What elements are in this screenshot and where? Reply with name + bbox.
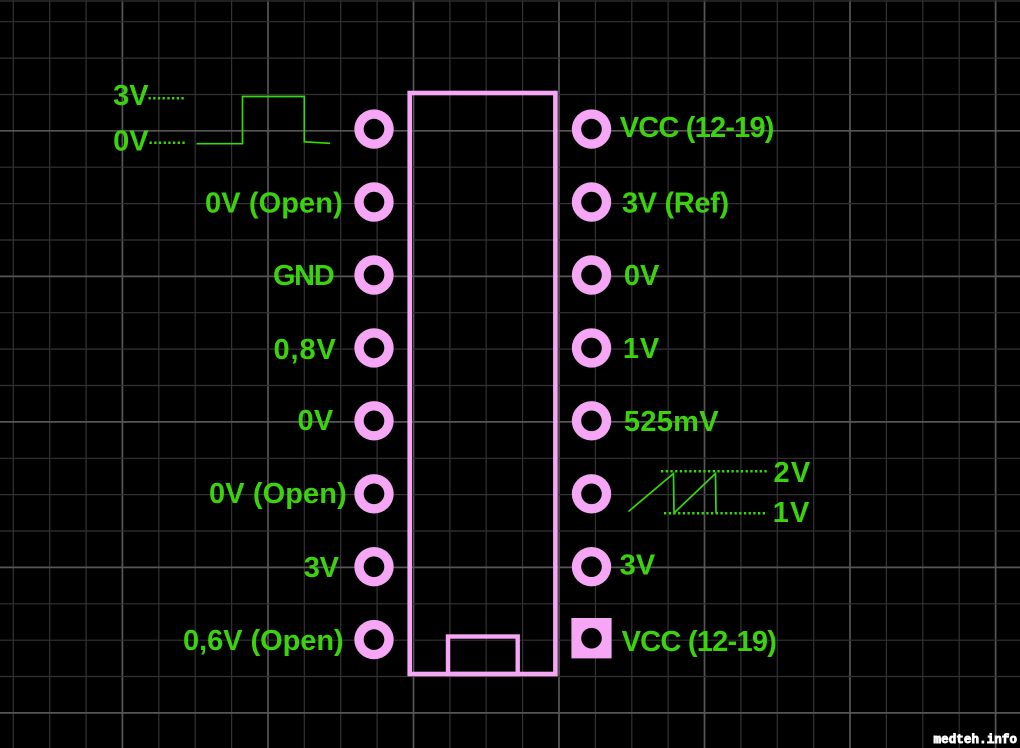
svg-text:3V: 3V xyxy=(113,80,149,112)
pad pin 14 (right column, round) xyxy=(572,255,611,294)
svg-text:3V (Ref): 3V (Ref) xyxy=(622,188,729,220)
pad pin 11 (right column, round) xyxy=(572,474,611,513)
svg-text:1V: 1V xyxy=(623,333,660,365)
dotted reference line 0V (pin 1) xyxy=(150,141,187,144)
IC orientation notch (bottom) xyxy=(448,637,518,675)
dotted reference line 3V (pin 1) xyxy=(149,97,187,100)
dotted reference line 1V (pin 11) xyxy=(664,512,767,515)
svg-text:525mV: 525mV xyxy=(624,406,719,438)
svg-text:GND: GND xyxy=(273,260,334,292)
pad pin 16 (right column, round) xyxy=(572,109,611,148)
pad pin 12 (right column, round) xyxy=(572,401,611,440)
pad pin 2 (left column) xyxy=(354,182,393,221)
pad pin 8 (left column) xyxy=(354,620,393,659)
svg-text:1V: 1V xyxy=(773,497,811,529)
svg-text:0V: 0V xyxy=(624,260,660,292)
svg-text:0,6V (Open): 0,6V (Open) xyxy=(183,625,344,657)
svg-text:VCC (12-19): VCC (12-19) xyxy=(620,112,774,144)
pad pin 3 (left column) xyxy=(354,255,393,294)
waveform pin 1: square pulse trace xyxy=(197,97,331,144)
pad pin 9 (right column, square pin-1-style pad) xyxy=(571,618,611,658)
svg-text:2V: 2V xyxy=(774,457,812,489)
pad pin 6 (left column) xyxy=(354,474,393,513)
svg-text:3V: 3V xyxy=(304,552,340,584)
dotted reference line 2V (pin 11) xyxy=(661,470,767,473)
pad pin 13 (right column, round) xyxy=(572,328,611,367)
svg-text:0,8V: 0,8V xyxy=(274,334,337,366)
svg-text:medteh.info: medteh.info xyxy=(934,733,1018,747)
svg-text:0V (Open): 0V (Open) xyxy=(209,478,347,510)
pad pin 5 (left column) xyxy=(354,401,393,440)
pad pin 4 (left column) xyxy=(354,328,393,367)
svg-text:3V: 3V xyxy=(620,550,656,582)
pad pin 7 (left column) xyxy=(354,547,393,586)
pad pin 15 (right column, round) xyxy=(572,182,611,221)
svg-text:0V (Open): 0V (Open) xyxy=(205,188,343,220)
svg-text:0V: 0V xyxy=(113,126,149,158)
IC body outline U1 xyxy=(410,93,556,674)
waveform pin 11: sawtooth trace xyxy=(629,474,717,514)
svg-text:0V: 0V xyxy=(298,405,334,437)
pad pin 1 (left column) xyxy=(354,109,393,148)
pad pin 10 (right column, round) xyxy=(572,547,611,586)
svg-text:VCC (12-19): VCC (12-19) xyxy=(622,626,777,658)
